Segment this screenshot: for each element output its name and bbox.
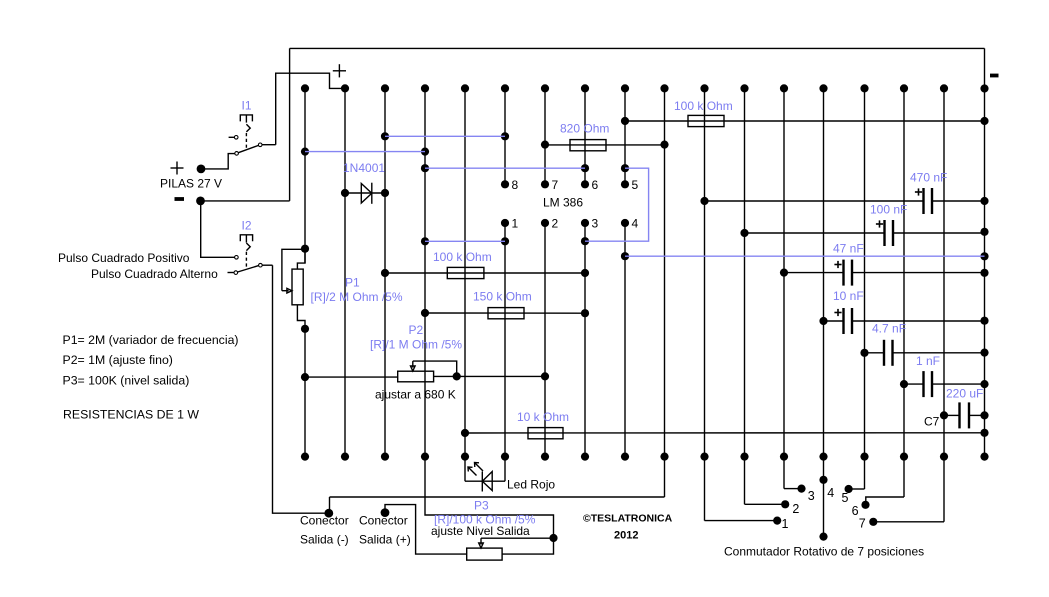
resistor 820 Ohm wire	[545, 144, 665, 146]
blue wire y=168.2 between col4 and pin6	[425, 167, 585, 169]
svg-text:4: 4	[827, 486, 834, 500]
wire: battery plus to I1 throw	[201, 154, 235, 169]
potentiometer P2 body	[398, 371, 434, 382]
wire: vertical bus column 4 (x=425) with junction dots	[421, 84, 429, 460]
blue wire y=151.6 between col1 and col4	[305, 151, 425, 153]
potentiometer P1 top terminal elbow	[297, 249, 305, 269]
svg-text:RESISTENCIAS DE 1 W: RESISTENCIAS DE 1 W	[63, 408, 199, 422]
wire: salida plus to P3 left terminal	[385, 505, 467, 554]
resistor 10 k Ohm wire / bottom rail	[465, 432, 985, 434]
node: battery minus	[196, 197, 205, 206]
switch I1 throw contact	[235, 152, 239, 156]
wire: drop from y=497 to salida minus node	[329, 497, 331, 513]
wire: vertical bus column 9 (x=625) with junction dots	[621, 84, 629, 460]
blue elbow from pin5 node around to pin3 node	[585, 168, 649, 241]
node: P2 wiper junction	[453, 372, 461, 380]
switch I2 common contact	[259, 263, 263, 267]
blue wire y=256.2 from pin4 to right rail	[625, 255, 985, 257]
wire: elbow from I1 common up to plus bus entry	[276, 73, 341, 145]
potentiometer P3 wiper wire	[481, 537, 554, 539]
svg-text:P3: P3	[474, 499, 489, 513]
node: conector salida plus	[381, 508, 390, 517]
wire: vertical bus column 1 (x=305) with junction dots	[301, 84, 309, 460]
switch I2 positivo throw contact	[235, 255, 239, 259]
wire: vertical bus column 6 (x=505) with junction dots	[501, 84, 509, 481]
rotary switch contact 3 dot	[797, 485, 805, 493]
resistor 150 k Ohm wire	[425, 312, 585, 314]
svg-text:2: 2	[552, 217, 559, 231]
svg-text:10 nF: 10 nF	[833, 289, 864, 303]
wire: vertical bus column 15 (x=864.5) with junction dots	[860, 84, 868, 489]
minus sign top right	[990, 74, 999, 78]
svg-text:Conector: Conector	[359, 514, 408, 528]
rotary switch contact 6 dot	[861, 501, 869, 509]
rotary switch contact 1 wire	[705, 520, 774, 522]
rotary switch contact 2 dot	[781, 500, 789, 508]
capacitor 4.7 nF	[865, 340, 985, 366]
capacitor 220 uF	[944, 402, 985, 428]
resistor 100 k Ohm top wire	[625, 120, 985, 122]
svg-text:©TESLATRONICA: ©TESLATRONICA	[583, 513, 673, 525]
potentiometer P3 body	[467, 548, 502, 560]
svg-text:I2: I2	[242, 219, 252, 233]
rotary switch contact 3 wire	[784, 488, 798, 490]
svg-text:P1= 2M (variador de frecuencia: P1= 2M (variador de frecuencia)	[63, 333, 239, 347]
wire: I1 common to elbow	[262, 144, 276, 146]
rotary switch contact 7 wire	[877, 521, 944, 523]
resistor 100 k Ohm top body	[688, 115, 724, 126]
capacitor 470 nF plus sign	[915, 188, 922, 195]
svg-text:P1: P1	[345, 276, 360, 290]
svg-text:7: 7	[859, 517, 866, 531]
switch I1 open throw stub	[229, 136, 235, 138]
diode 1N4001 wire	[345, 192, 385, 194]
switch I2 linkage dashed	[245, 252, 247, 269]
diode 1N4001 cathode bar	[371, 183, 373, 204]
wire: vertical bus column 3 (x=385) with junction dots	[381, 84, 389, 460]
svg-text:47 nF: 47 nF	[833, 242, 864, 256]
LED triangle	[482, 472, 492, 491]
wire: vertical bus column 18 (x=984.5) with junction dots	[980, 48, 988, 460]
capacitor 10 nF plus sign	[834, 309, 841, 316]
svg-text:2012: 2012	[614, 530, 638, 542]
switch I2 arm	[238, 266, 259, 272]
svg-text:Salida (+): Salida (+)	[359, 533, 411, 547]
svg-text:C7: C7	[924, 415, 940, 429]
svg-text:LM 386: LM 386	[543, 196, 583, 210]
resistor 150 k Ohm body	[488, 308, 524, 319]
svg-text:3: 3	[808, 489, 815, 503]
wire: vertical bus column 13 (x=784) with junction dots	[780, 84, 788, 488]
rotary switch contact 2 wire	[745, 503, 782, 505]
potentiometer P2 left wire to col1	[305, 376, 398, 378]
svg-text:6: 6	[852, 504, 859, 518]
svg-text:Conmutador Rotativo de 7 posic: Conmutador Rotativo de 7 posiciones	[724, 544, 924, 558]
LED emission arrow 2	[468, 467, 477, 476]
svg-text:5: 5	[632, 178, 639, 192]
svg-text:150 k Ohm: 150 k Ohm	[473, 290, 532, 304]
wire: vertical bus column 14 (x=823.5) with junction dots	[819, 84, 827, 540]
diode 1N4001 triangle	[361, 184, 372, 204]
svg-text:3: 3	[592, 217, 599, 231]
svg-text:100 nF: 100 nF	[870, 203, 907, 217]
potentiometer P1 body	[292, 269, 303, 305]
svg-text:Pulso Cuadrado Positivo: Pulso Cuadrado Positivo	[58, 251, 190, 265]
svg-text:6: 6	[592, 178, 599, 192]
rotary switch contact 7 dot	[869, 518, 877, 526]
switch I2 alterno stub	[228, 272, 234, 274]
switch I1 open throw contact	[234, 136, 238, 140]
capacitor 100 nF	[745, 220, 985, 246]
switch I1 arm	[238, 145, 259, 152]
svg-text:Pulso Cuadrado Alterno: Pulso Cuadrado Alterno	[91, 267, 218, 281]
wire: battery minus down to I2 positivo throw	[201, 201, 235, 257]
battery plus terminal dot and label	[171, 162, 184, 175]
potentiometer P1 wiper wire to top node	[282, 249, 302, 290]
LED red wire horizontal	[465, 480, 505, 482]
svg-text:P3= 100K (nivel salida): P3= 100K (nivel salida)	[63, 374, 190, 388]
wire: minus rail top horizontal	[290, 47, 985, 49]
LED emission arrow 1	[475, 463, 484, 472]
wire: vertical bus column 16 (x=904) with junction dots	[900, 84, 908, 497]
svg-text:Conector: Conector	[300, 514, 349, 528]
capacitor 470 nF	[705, 188, 985, 214]
svg-text:8: 8	[512, 178, 519, 192]
svg-text:4.7 nF: 4.7 nF	[872, 321, 906, 335]
rotary switch contact 5 dot	[845, 485, 853, 493]
resistor 100 k Ohm mid body	[447, 267, 484, 278]
wire: feed from col4 down to P3 wiper node	[425, 457, 554, 534]
switch I2 spring detent	[246, 243, 250, 251]
wire: vertical bus column 10 (x=664.5) with junction dots	[660, 84, 668, 497]
node: P3 wiper/right terminal junction	[549, 534, 557, 542]
resistor 820 Ohm body	[570, 140, 606, 151]
LED cathode bar	[481, 472, 483, 492]
capacitor 47 nF plus sign	[834, 261, 841, 268]
svg-text:220 uF: 220 uF	[946, 387, 983, 401]
wire: minus rail left drop to battery minus	[289, 48, 291, 201]
potentiometer P1 bottom terminal elbow	[297, 305, 305, 329]
svg-text:1: 1	[782, 517, 789, 531]
capacitor 47 nF	[784, 260, 985, 286]
svg-text:820 Ohm: 820 Ohm	[560, 122, 609, 136]
rotary switch contact 1 dot	[773, 517, 781, 525]
switch I1 common contact	[258, 143, 262, 147]
potentiometer P2 wiper elbow	[413, 361, 457, 376]
wire: vertical bus column 12 (x=744.5) with junction dots	[740, 84, 748, 504]
wire: vertical bus column 5 (x=465) with junction dots	[461, 84, 469, 481]
svg-text:I1: I1	[242, 99, 252, 113]
svg-text:P2: P2	[409, 323, 424, 337]
capacitor 100 nF plus sign	[876, 220, 883, 227]
svg-text:4: 4	[632, 217, 639, 231]
capacitor 1 nF	[904, 371, 985, 397]
svg-text:10 k Ohm: 10 k Ohm	[517, 410, 569, 424]
blue wire y=136 between col3 and col6	[385, 135, 505, 137]
wire: vertical bus column 2 (x=345) with junction dots	[341, 84, 349, 460]
switch I1 linkage dashed	[245, 133, 247, 150]
wire: I2 common right to output bus	[262, 264, 272, 266]
svg-text:100 k Ohm: 100 k Ohm	[674, 99, 733, 113]
wire: vertical bus column 8 (x=585) with junction dots	[581, 84, 589, 460]
blue wire y=241.3 between col4 and pin1	[425, 240, 505, 242]
switch I2 latch symbol	[240, 235, 252, 243]
svg-text:Led Rojo: Led Rojo	[507, 478, 555, 492]
wire: vertical bus column 7 (x=545) with junction dots	[541, 84, 549, 460]
svg-text:7: 7	[552, 178, 559, 192]
resistor 100 k Ohm mid wire	[385, 272, 585, 274]
capacitor 10 nF	[824, 308, 985, 334]
svg-text:ajustar a 680 K: ajustar a 680 K	[375, 388, 456, 402]
svg-text:1 nF: 1 nF	[916, 354, 940, 368]
rotary switch contact 5 wire	[849, 488, 865, 490]
svg-text:100 k Ohm: 100 k Ohm	[433, 250, 492, 264]
svg-text:1: 1	[512, 217, 519, 231]
node: conector salida minus	[324, 509, 333, 518]
wire: vertical bus column 11 (x=704.5) with junction dots	[700, 84, 708, 520]
plus sign top center	[333, 64, 346, 77]
svg-text:[R]/1 M Ohm /5%: [R]/1 M Ohm /5%	[370, 338, 462, 352]
svg-text:1N4001: 1N4001	[343, 161, 385, 175]
svg-text:P2= 1M (ajuste fino): P2= 1M (ajuste fino)	[63, 353, 173, 367]
svg-text:[R]/2 M Ohm /5%: [R]/2 M Ohm /5%	[311, 290, 403, 304]
potentiometer P3 right terminal elbow	[502, 538, 553, 554]
wire: battery minus to minus rail drop	[201, 200, 290, 202]
potentiometer P2 right wire to col7	[434, 375, 545, 377]
potentiometer P3 wiper arrow	[479, 538, 484, 548]
svg-text:Salida (-): Salida (-)	[300, 533, 349, 547]
potentiometer P1 wiper arrow	[282, 288, 292, 293]
battery minus sign	[175, 197, 185, 201]
wire: vertical bus column 17 (x=944) with junction dots	[940, 84, 948, 522]
switch I1 spring detent	[246, 124, 250, 132]
node: battery plus	[197, 165, 206, 174]
switch I1 latch symbol	[240, 115, 252, 123]
svg-text:PILAS 27 V: PILAS 27 V	[160, 177, 222, 191]
svg-text:470 nF: 470 nF	[910, 171, 947, 185]
resistor 10 k Ohm body	[528, 428, 563, 439]
svg-text:5: 5	[842, 491, 849, 505]
wire: left output bus down to salida minus	[273, 265, 326, 513]
switch I2 alterno throw contact	[234, 271, 238, 275]
wire: long output line y=497	[330, 496, 665, 498]
svg-text:2: 2	[792, 502, 799, 516]
potentiometer P2 wiper arrow	[411, 361, 416, 371]
rotary switch contact 6 wire	[866, 497, 904, 501]
svg-text:ajuste Nivel Salida: ajuste Nivel Salida	[431, 524, 530, 538]
